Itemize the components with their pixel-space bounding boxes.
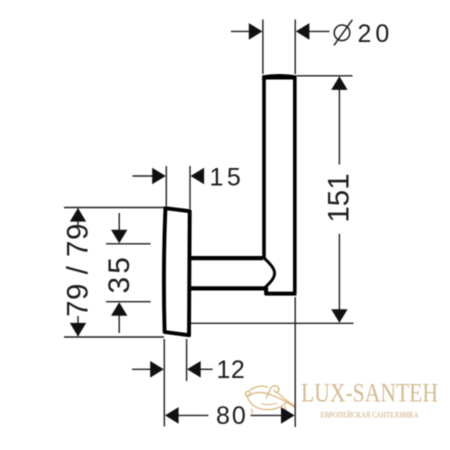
svg-text:80: 80 bbox=[216, 402, 248, 430]
dia20 left arrow bbox=[249, 23, 263, 40]
151 bottom extension line bbox=[190, 322, 354, 324]
diameter symbol bbox=[334, 20, 352, 46]
35 top arrow bbox=[111, 230, 127, 244]
15 ext line left bbox=[165, 166, 167, 206]
79/79 bottom arrow bbox=[70, 323, 86, 337]
svg-text:LUX-SANTEH: LUX-SANTEH bbox=[301, 379, 438, 408]
svg-text:35: 35 bbox=[103, 254, 136, 293]
151 top extension line bbox=[297, 75, 353, 77]
svg-text:12: 12 bbox=[217, 356, 246, 384]
12 left leader bbox=[132, 368, 151, 370]
15 left arrow bbox=[152, 168, 166, 185]
12/80 left extension line bbox=[163, 339, 165, 427]
151 dim line lower segment bbox=[338, 234, 340, 322]
15 right arrow bbox=[191, 168, 205, 185]
svg-text:20: 20 bbox=[358, 20, 394, 48]
79/79 top arrow bbox=[70, 208, 86, 222]
35 lower leader bbox=[118, 315, 120, 333]
part: tube bottom cap bbox=[266, 287, 296, 294]
12 right extension line bbox=[186, 339, 188, 381]
12 left arrow bbox=[150, 361, 164, 378]
dia20 right leader bbox=[309, 30, 330, 32]
35 upper leader bbox=[118, 213, 120, 231]
part: arm end bulge bbox=[264, 258, 275, 289]
part: arm bottom line bbox=[190, 286, 268, 290]
80 right arrow bbox=[281, 407, 295, 424]
dimension thin lines bbox=[64, 20, 354, 428]
svg-text:79 / 79: 79 / 79 bbox=[61, 223, 94, 317]
12 right leader bbox=[200, 368, 213, 370]
151 dim line upper segment bbox=[338, 77, 340, 165]
part: tube top dome cap bbox=[262, 74, 296, 80]
part: vertical tube right edge bbox=[293, 77, 297, 294]
watermark bathtub logo bbox=[246, 386, 296, 413]
svg-text:15: 15 bbox=[210, 164, 245, 192]
part: wall plate outline bbox=[164, 208, 190, 335]
12 right arrow bbox=[187, 361, 201, 378]
151 top arrow bbox=[331, 76, 347, 90]
dia20 left leader bbox=[231, 30, 250, 32]
80 dim line left segment bbox=[178, 414, 208, 416]
80 dim line right segment bbox=[251, 414, 282, 416]
ext line right of tube top bbox=[294, 20, 296, 75]
80 left arrow bbox=[165, 407, 179, 424]
arrowheads bbox=[70, 23, 348, 424]
dia20 right arrow bbox=[296, 23, 310, 40]
35 bottom arrow bbox=[111, 302, 127, 316]
15 left leader bbox=[132, 175, 153, 177]
35 top extension line bbox=[106, 243, 151, 245]
79/79 dim line upper segment bbox=[77, 209, 79, 227]
79/79 top extension line bbox=[64, 207, 165, 209]
151 bottom arrow bbox=[331, 309, 347, 323]
79/79 dim line lower segment bbox=[77, 316, 79, 336]
ext line left of tube top bbox=[262, 20, 264, 75]
part: arm top line bbox=[190, 256, 264, 260]
35 bottom extension line bbox=[106, 301, 151, 303]
svg-text:151: 151 bbox=[323, 173, 356, 222]
80 right extension line bbox=[294, 297, 296, 427]
part: vertical tube left edge bbox=[262, 77, 266, 259]
svg-text:ЕВРОПЕЙСКАЯ САНТЕХНИКА: ЕВРОПЕЙСКАЯ САНТЕХНИКА bbox=[321, 411, 419, 420]
79/79 bottom extension line bbox=[64, 336, 164, 338]
15 ext line right bbox=[189, 166, 191, 209]
